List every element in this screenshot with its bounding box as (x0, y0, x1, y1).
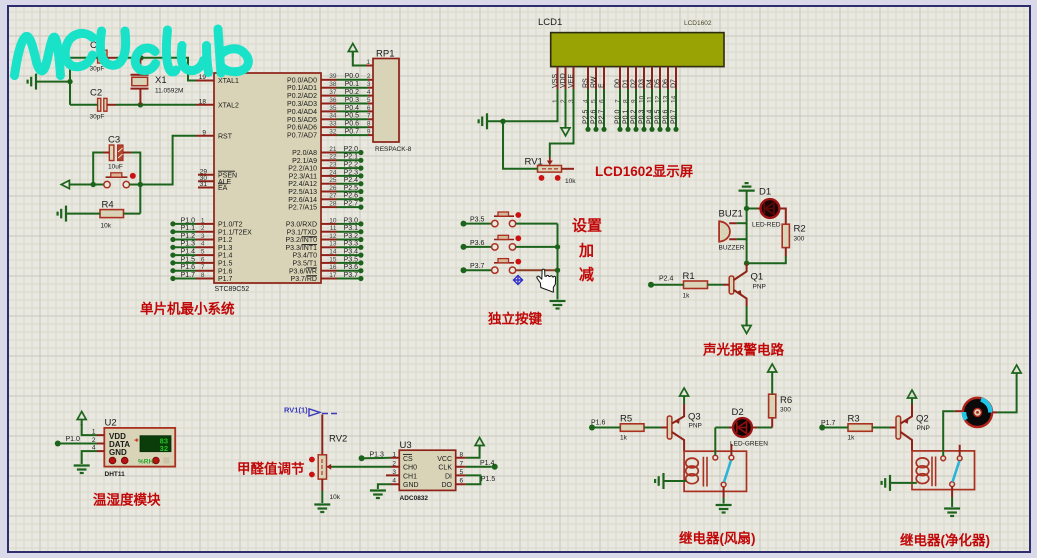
push button key P3.7 (461, 259, 558, 274)
svg-text:6: 6 (460, 478, 464, 485)
svg-text:P0.7/AD7: P0.7/AD7 (287, 133, 317, 140)
svg-text:9: 9 (202, 129, 206, 136)
svg-text:RESPACK-8: RESPACK-8 (375, 146, 412, 153)
svg-text:D2: D2 (631, 79, 638, 88)
svg-text:P2.7: P2.7 (344, 201, 359, 208)
svg-text:CS: CS (403, 456, 413, 463)
ground (LCD VSS, rotated) (479, 113, 487, 129)
svg-text:VSS: VSS (552, 74, 559, 88)
svg-text:LED-RED: LED-RED (752, 222, 781, 229)
svg-text:P2.5: P2.5 (583, 109, 590, 124)
power arrow (Q3 emitter) (680, 388, 689, 402)
svg-text:P0.7: P0.7 (671, 109, 678, 124)
node C1/X1 junction (138, 55, 143, 60)
mcu left pin numbers (199, 74, 208, 188)
mcu P3 pins with net labels P3.0-P3.7 (321, 223, 337, 225)
wire R6 top to power (771, 378, 773, 395)
svg-text:23: 23 (329, 162, 337, 169)
svg-text:P0.2: P0.2 (631, 109, 638, 124)
svg-text:11: 11 (330, 225, 337, 232)
svg-text:P2.6/A14: P2.6/A14 (288, 197, 317, 204)
wire RV2 bottom to ground (321, 479, 323, 491)
svg-text:P3.3: P3.3 (344, 241, 359, 248)
svg-text:P2.7/A15: P2.7/A15 (288, 205, 317, 212)
svg-text:P0.6: P0.6 (345, 121, 360, 128)
svg-text:P1.5: P1.5 (181, 256, 196, 263)
logo MCUclub (15, 29, 249, 76)
svg-text:PNP: PNP (917, 425, 930, 432)
svg-text:STC89C52: STC89C52 (215, 286, 250, 293)
capacitor C1 30pF (90, 40, 108, 73)
svg-text:4: 4 (392, 478, 396, 485)
svg-text:38: 38 (329, 81, 337, 88)
svg-text:RV1(1): RV1(1) (284, 406, 308, 415)
svg-text:RW: RW (591, 76, 598, 88)
motor (fan) (963, 398, 992, 427)
svg-text:R2: R2 (794, 224, 806, 235)
wire arrow to button (75, 184, 104, 186)
power arrow (R6) (768, 364, 777, 378)
terminal P2.4 (648, 282, 654, 288)
svg-text:P1.6: P1.6 (591, 420, 606, 427)
svg-text:3: 3 (201, 233, 205, 240)
svg-text:Q3: Q3 (688, 412, 701, 423)
svg-text:P2.3/A11: P2.3/A11 (289, 173, 317, 180)
terminal P1.3 (359, 455, 365, 461)
svg-text:D0: D0 (615, 79, 622, 88)
svg-text:VEE: VEE (568, 74, 575, 88)
svg-text:U3: U3 (400, 440, 412, 451)
wire C3 right (123, 152, 131, 154)
ground (relay purifier coil) (882, 475, 890, 491)
relay (fan) box (684, 444, 746, 491)
svg-text:21: 21 (329, 146, 337, 153)
transistor Q3 PNP (667, 404, 702, 451)
svg-text:P1.6: P1.6 (181, 264, 196, 271)
svg-text:7: 7 (201, 264, 205, 271)
svg-text:GND: GND (403, 482, 419, 489)
svg-text:P1.4: P1.4 (181, 249, 196, 256)
svg-text:13: 13 (329, 241, 337, 248)
svg-text:14: 14 (329, 249, 337, 256)
svg-text:E: E (599, 83, 606, 88)
node buzzer/led junction (744, 206, 749, 211)
svg-text:P2.6: P2.6 (591, 109, 598, 124)
wire ground to C1/C2 branch (36, 81, 70, 83)
svg-text:CH1: CH1 (403, 473, 417, 480)
svg-text:1: 1 (392, 451, 396, 458)
svg-text:5: 5 (367, 97, 371, 104)
wire RV2 top to RV1(1) (321, 415, 323, 455)
svg-text:P0.4/AD4: P0.4/AD4 (287, 109, 317, 116)
svg-text:4: 4 (201, 241, 205, 248)
wire relay pole to ground (951, 487, 953, 497)
svg-text:X1: X1 (155, 75, 167, 86)
svg-text:P3.3/INT1: P3.3/INT1 (285, 245, 317, 252)
wire DI/DO join to P1.5 (466, 475, 481, 484)
crystal X1 11.0592M (131, 58, 184, 105)
svg-text:P0.4: P0.4 (345, 105, 360, 112)
svg-text:31: 31 (200, 181, 208, 188)
svg-text:独立按键: 独立按键 (488, 311, 542, 327)
wire D2 to R6 (751, 427, 757, 429)
svg-text:P3.4: P3.4 (344, 249, 359, 256)
svg-text:P1.7: P1.7 (218, 276, 233, 283)
svg-text:P0.5: P0.5 (655, 109, 662, 124)
wire RV1 left to ground net (503, 121, 538, 169)
wire P2.4 to R1 (651, 284, 684, 286)
svg-text:EA: EA (218, 185, 228, 192)
capacitor C3 10uF (108, 135, 123, 171)
wire node vertical (746, 209, 748, 264)
svg-text:VCC: VCC (437, 456, 452, 463)
svg-text:15: 15 (329, 256, 337, 263)
svg-text:300: 300 (794, 236, 805, 243)
capacitor C2 30pF (90, 88, 108, 121)
svg-text:Q2: Q2 (916, 414, 929, 425)
svg-text:1k: 1k (620, 435, 628, 442)
svg-text:27: 27 (329, 193, 337, 200)
ground (R4) (58, 206, 66, 222)
svg-text:P1.5: P1.5 (218, 261, 233, 268)
wire C2 left (70, 104, 98, 106)
svg-text:R6: R6 (780, 395, 792, 406)
resistor R3 1k (848, 414, 873, 442)
ground (crystal) (28, 74, 36, 90)
wire ADC GND to ground (378, 484, 391, 489)
svg-text:D5: D5 (655, 79, 662, 88)
wire keys common bus to ground (557, 224, 559, 300)
svg-text:PNP: PNP (689, 423, 702, 430)
svg-text:P1.0: P1.0 (181, 217, 196, 224)
svg-text:4: 4 (367, 89, 371, 96)
svg-text:30pF: 30pF (90, 114, 105, 121)
svg-text:P1.7: P1.7 (821, 420, 836, 427)
svg-text:DO: DO (442, 482, 453, 489)
wire relay pole to ground (723, 487, 725, 498)
svg-text:BUZZER: BUZZER (719, 245, 745, 252)
svg-text:39: 39 (329, 73, 337, 80)
ground (keys) (550, 301, 566, 309)
svg-text:U2: U2 (105, 418, 117, 429)
ground (U2) (74, 466, 90, 474)
wire VCC to power (466, 446, 480, 458)
svg-text:DI: DI (445, 473, 452, 480)
svg-text:P0.2: P0.2 (345, 89, 360, 96)
wire R2 bottom to node (785, 248, 787, 256)
resistor pack RP1 RESPACK-8 (366, 49, 411, 154)
power arrow (motor) (1012, 365, 1021, 379)
svg-text:3: 3 (367, 81, 371, 88)
svg-text:甲醛值调节: 甲醛值调节 (237, 461, 305, 477)
wire RV1 right (dangling) (562, 168, 575, 170)
svg-text:R4: R4 (102, 200, 114, 211)
svg-text:35: 35 (329, 105, 337, 112)
wire P1.0 to DATA (58, 443, 97, 445)
svg-text:ADC0832: ADC0832 (400, 495, 429, 502)
svg-text:P1.3: P1.3 (218, 245, 233, 252)
svg-text:7: 7 (460, 460, 464, 467)
svg-text:LED-GREEN: LED-GREEN (730, 441, 768, 448)
svg-text:2: 2 (367, 73, 371, 80)
svg-text:5: 5 (201, 249, 205, 256)
wire D1 cathode to R2 (779, 209, 786, 225)
wire R4 right (124, 213, 141, 215)
resistor R6 300 (769, 394, 793, 418)
power arrow (reset, pointing left) (61, 180, 75, 188)
svg-text:RV1: RV1 (525, 157, 543, 168)
power arrow (U2 VDD) (77, 412, 86, 426)
wire CLK to P1.4 (466, 466, 492, 468)
svg-text:28: 28 (329, 201, 337, 208)
svg-text:P0.4: P0.4 (647, 109, 654, 124)
svg-text:36: 36 (329, 97, 337, 104)
svg-text:22: 22 (329, 154, 337, 161)
power arrow (Q2 emitter) (908, 390, 917, 404)
mcu U1 STC89C52 (214, 63, 321, 293)
terminal P1.0 (55, 441, 61, 447)
svg-text:LCD1602显示屏: LCD1602显示屏 (595, 164, 694, 179)
svg-text:P0.1: P0.1 (623, 109, 630, 124)
svg-text:P0.0: P0.0 (345, 73, 360, 80)
transistor Q2 PNP (896, 404, 930, 451)
svg-text:P3.7: P3.7 (344, 272, 359, 279)
ground (relay fan coil) (655, 473, 663, 489)
svg-text:3: 3 (392, 469, 396, 476)
svg-text:8: 8 (367, 121, 371, 128)
svg-text:DHT11: DHT11 (105, 471, 126, 478)
svg-text:6: 6 (201, 256, 205, 263)
svg-text:P0.3: P0.3 (345, 97, 360, 104)
svg-text:10: 10 (329, 217, 337, 224)
svg-text:P1.0/T2: P1.0/T2 (218, 222, 243, 229)
DHT11 pin stubs and numbers (97, 435, 104, 451)
ground (relay fan pole) (716, 505, 732, 513)
svg-text:声光报警电路: 声光报警电路 (702, 342, 784, 358)
svg-text:33: 33 (329, 121, 337, 128)
wire C2 right to XTAL2 (107, 104, 116, 106)
svg-text:P3.0: P3.0 (344, 217, 359, 224)
svg-text:P3.7/RD: P3.7/RD (291, 276, 317, 283)
svg-text:12: 12 (329, 233, 337, 240)
svg-text:30pF: 30pF (90, 66, 105, 73)
mcu left pin stubs (196, 81, 214, 188)
ground (U3) (370, 491, 386, 499)
svg-text:10k: 10k (565, 178, 576, 185)
wire RP1 pin1 to power (366, 65, 373, 67)
svg-text:P1.7: P1.7 (181, 272, 196, 279)
svg-text:P2.5/A13: P2.5/A13 (288, 189, 317, 196)
resistor R4 10k (100, 200, 124, 230)
svg-text:CH0: CH0 (403, 465, 417, 472)
push button key P3.6 (461, 235, 558, 250)
svg-text:P2.4: P2.4 (659, 276, 674, 283)
svg-text:P3.7: P3.7 (470, 263, 485, 270)
svg-text:LCD1: LCD1 (538, 17, 562, 28)
svg-text:1k: 1k (848, 435, 856, 442)
svg-text:P3.6/WR: P3.6/WR (289, 268, 317, 275)
blue selection marker (514, 276, 523, 285)
svg-text:P2.2/A10: P2.2/A10 (288, 166, 317, 173)
svg-text:2: 2 (201, 225, 205, 232)
svg-text:C3: C3 (108, 135, 120, 146)
svg-text:单片机最小系统: 单片机最小系统 (140, 301, 235, 317)
wire GND pin to ground (82, 451, 97, 464)
LCD1 LCD1602 display (538, 17, 724, 67)
svg-text:P3.4/T0: P3.4/T0 (292, 253, 317, 260)
svg-text:D6: D6 (663, 79, 670, 88)
wire ground to coil (890, 482, 917, 484)
wire motor to power (992, 411, 997, 413)
mcu P0 pins wires to RP1, net labels P0.0-P0.7 (321, 79, 337, 81)
svg-text:RST: RST (218, 133, 233, 140)
wire LCD VSS to ground (487, 89, 558, 121)
svg-text:P2.7: P2.7 (599, 109, 606, 124)
svg-text:34: 34 (329, 113, 337, 120)
svg-text:P1.1: P1.1 (181, 225, 196, 232)
wire C3 left (103, 152, 109, 154)
svg-text:P3.5/T1: P3.5/T1 (292, 261, 317, 268)
svg-text:6: 6 (367, 105, 371, 112)
power arrow down (VDD) (561, 122, 570, 136)
ADC pin stubs (386, 458, 466, 484)
svg-text:P1.4: P1.4 (480, 460, 495, 467)
svg-text:P1.5: P1.5 (481, 476, 496, 483)
svg-text:P3.2: P3.2 (344, 233, 359, 240)
power VCC arrow at RP1 (348, 44, 357, 58)
svg-text:P0.6/AD6: P0.6/AD6 (287, 125, 317, 132)
wire P1.6 to R5 (592, 427, 620, 429)
svg-text:P3.6: P3.6 (470, 240, 485, 247)
svg-text:300: 300 (780, 407, 791, 414)
relay (purifier) box (912, 445, 975, 490)
svg-text:24: 24 (329, 169, 337, 176)
svg-text:1: 1 (201, 217, 205, 224)
svg-text:R5: R5 (620, 414, 632, 425)
svg-text:P0.5/AD5: P0.5/AD5 (287, 117, 317, 124)
svg-text:P3.5: P3.5 (470, 217, 485, 224)
svg-text:P3.6: P3.6 (344, 264, 359, 271)
svg-text:P0.3/AD3: P0.3/AD3 (287, 101, 317, 108)
svg-text:D7: D7 (671, 79, 678, 88)
svg-text:PNP: PNP (753, 284, 766, 291)
terminal P1.7 (819, 425, 825, 431)
svg-text:D3: D3 (639, 79, 646, 88)
power arrow down (Q1) (742, 320, 751, 334)
wire power to VDD (82, 424, 97, 435)
svg-text:32: 32 (329, 129, 337, 136)
transistor Q1 PNP (729, 263, 766, 306)
wire P1.7 to R3 (822, 427, 848, 429)
DHT11 module U2 (104, 418, 175, 479)
svg-text:BUZ1: BUZ1 (719, 209, 743, 220)
LED D1 LED-RED (747, 187, 781, 229)
svg-text:8: 8 (460, 451, 464, 458)
svg-text:P3.5: P3.5 (344, 256, 359, 263)
svg-text:10uF: 10uF (108, 164, 123, 171)
resistor R2 300 (782, 224, 805, 248)
svg-text:8: 8 (201, 272, 205, 279)
svg-text:P2.5: P2.5 (344, 185, 359, 192)
svg-text:37: 37 (329, 89, 337, 96)
svg-text:P3.0/RXD: P3.0/RXD (286, 222, 317, 229)
svg-text:10k: 10k (101, 223, 112, 230)
svg-text:P2.1: P2.1 (344, 154, 359, 161)
wire ground to node (746, 191, 748, 209)
wire R1 to Q1 base (708, 284, 724, 286)
wire LCD VEE to RV1 wiper (550, 89, 574, 157)
wire RV2 wiper to ADC CH0 (327, 466, 332, 468)
mcu P2 pins with net labels P2.0-P2.7 (321, 152, 337, 154)
mouse cursor hand (537, 269, 556, 292)
resistor R5 1k (620, 414, 644, 442)
power arrow (U3 VCC) (475, 438, 484, 452)
wire relay contact to motor (943, 411, 955, 456)
svg-text:P3.1/TXD: P3.1/TXD (287, 229, 317, 236)
svg-text:XTAL2: XTAL2 (218, 102, 239, 109)
svg-text:P1.6: P1.6 (218, 268, 233, 275)
svg-text:5: 5 (460, 469, 464, 476)
svg-text:16: 16 (329, 264, 337, 271)
svg-text:RV2: RV2 (329, 434, 347, 445)
svg-text:LCD1602: LCD1602 (684, 20, 712, 27)
svg-text:P0.0: P0.0 (615, 109, 622, 124)
wire button right / RST net (130, 136, 197, 185)
svg-text:GND: GND (109, 448, 127, 457)
svg-text:C2: C2 (90, 88, 102, 99)
svg-text:P0.5: P0.5 (345, 113, 360, 120)
svg-text:P2.0/A8: P2.0/A8 (292, 150, 317, 157)
svg-text:继电器(风扇): 继电器(风扇) (679, 530, 756, 546)
wire XTAL1 net (141, 58, 196, 81)
push button (reset) (104, 173, 136, 188)
node VSS/RV1 junction (500, 119, 505, 124)
wire P1.3 to CS (362, 457, 391, 460)
svg-text:P1.1/T2EX: P1.1/T2EX (218, 229, 252, 236)
wire R4 left (66, 213, 100, 215)
mcu P1 pins with net labels P1.0-P1.7 (170, 221, 175, 226)
svg-text:P2.2: P2.2 (344, 162, 359, 169)
ground (alarm top) (739, 183, 755, 191)
svg-text:Q1: Q1 (751, 272, 764, 283)
svg-text:P0.1/AD1: P0.1/AD1 (287, 85, 317, 92)
svg-text:P3.1: P3.1 (344, 225, 359, 232)
svg-text:18: 18 (199, 98, 207, 105)
potentiometer RV1 10k (525, 157, 577, 186)
wire R5 to Q3 base (644, 427, 661, 429)
svg-text:RS: RS (583, 78, 590, 88)
svg-text:P2.1/A9: P2.1/A9 (292, 158, 317, 165)
svg-text:D1: D1 (623, 79, 630, 88)
push button key P3.5 (461, 212, 558, 227)
svg-text:D4: D4 (647, 79, 654, 88)
svg-text:25: 25 (329, 177, 337, 184)
svg-text:加: 加 (578, 243, 594, 260)
svg-text:%RH: %RH (138, 458, 153, 465)
svg-text:P3.2/INT0: P3.2/INT0 (285, 237, 317, 244)
svg-text:1k: 1k (683, 293, 691, 300)
wire label RV1(1) origin (284, 406, 337, 417)
svg-text:9: 9 (367, 129, 371, 136)
svg-text:P0.6: P0.6 (663, 109, 670, 124)
svg-text:P2.6: P2.6 (344, 193, 359, 200)
svg-text:P1.4: P1.4 (218, 253, 233, 260)
wire C1 right to node (107, 57, 116, 59)
ground (relay purifier pole) (944, 509, 960, 517)
svg-text:7: 7 (367, 113, 371, 120)
svg-text:继电器(净化器): 继电器(净化器) (900, 532, 990, 548)
LED D2 LED-GREEN (715, 407, 768, 455)
